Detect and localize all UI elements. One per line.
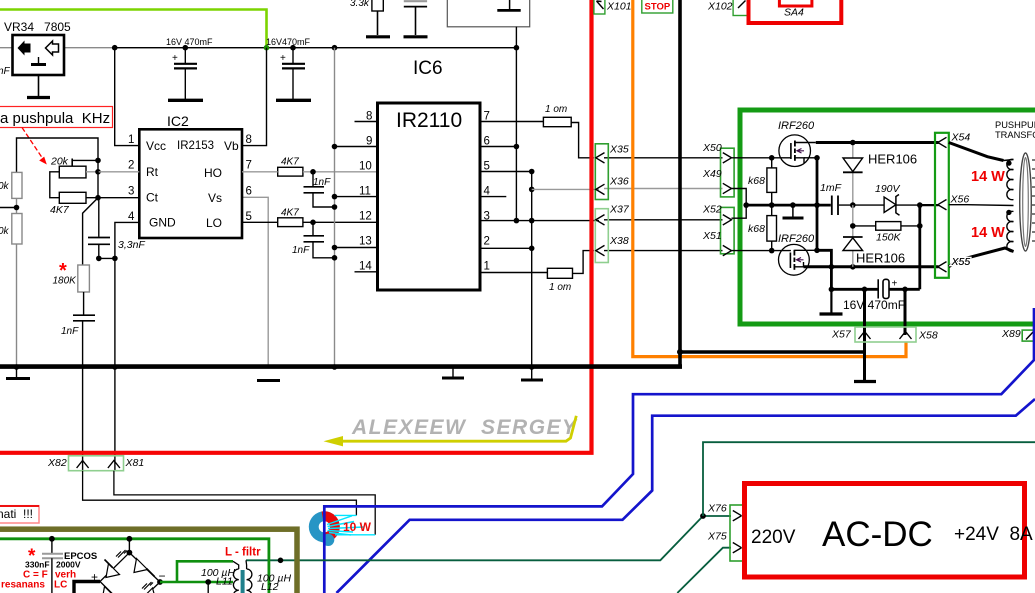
svg-text:6: 6 — [246, 186, 252, 198]
svg-text:+: + — [892, 279, 898, 290]
svg-text:4K7: 4K7 — [50, 204, 70, 216]
svg-text:X55: X55 — [951, 256, 971, 268]
svg-text:1nF: 1nF — [61, 326, 79, 337]
label box: a pushpula KHz — [0, 107, 113, 128]
connector X54/X56/X55 box — [935, 133, 949, 278]
node: rail on bus — [332, 364, 338, 370]
wire: bright green net top-left — [0, 10, 267, 48]
svg-text:resanans: resanans — [1, 580, 45, 591]
wire: X56 to center tap — [949, 204, 1014, 207]
svg-text:330nF: 330nF — [25, 560, 50, 570]
label X51 gate row wire — [732, 250, 791, 252]
svg-text:5: 5 — [484, 161, 490, 173]
connector arrow X36 — [596, 184, 605, 194]
wire: X82 to toroid — [83, 471, 357, 516]
svg-text:+: + — [172, 53, 178, 64]
inductor core bar — [241, 570, 245, 593]
wire: minus green to L11 — [160, 581, 233, 584]
node: teal dot in box — [278, 558, 284, 564]
label box STOP — [642, 0, 673, 13]
svg-text:8: 8 — [366, 111, 372, 123]
resistor 3.3k top — [350, 0, 390, 37]
transistor Q IRF260 #2 — [778, 233, 817, 275]
node: divider on bus — [14, 364, 20, 370]
zener diode 190V — [875, 183, 901, 215]
wire: X58 drop — [904, 289, 907, 335]
svg-text:X37: X37 — [609, 204, 630, 216]
svg-text:190V: 190V — [875, 183, 901, 195]
node: junction IC6 right — [514, 45, 520, 51]
node: rail pin11 — [332, 194, 338, 200]
wire: blue net A — [324, 308, 1034, 593]
svg-text:STOP: STOP — [645, 2, 671, 13]
ground below bus left — [6, 369, 30, 379]
wire: thick branch to X57 ground — [680, 350, 865, 354]
wire: black thick vertical x=680 — [678, 0, 682, 369]
svg-text:Rt: Rt — [146, 165, 159, 179]
wire: orange net — [633, 0, 906, 357]
svg-text:14 W: 14 W — [971, 225, 1005, 241]
svg-text:X38: X38 — [609, 235, 629, 247]
wire: source2 X55 row thick — [804, 265, 939, 268]
node: x516 pin6 — [514, 144, 520, 150]
svg-text:X51: X51 — [702, 230, 722, 242]
node: 150K left — [850, 223, 856, 229]
node: zener right — [917, 202, 923, 208]
node: gate1/k68 — [769, 155, 775, 161]
label box nati !!! — [0, 506, 39, 523]
switch box SA4 — [749, 0, 842, 23]
pin numbers IR2110 right — [484, 111, 491, 273]
node: Ct junction — [95, 195, 101, 201]
node: junction IC6 left — [332, 45, 338, 51]
node: GND on bus — [112, 364, 118, 370]
resistor 4K7 (Ct) — [50, 192, 86, 216]
module AC-DC box — [745, 484, 1034, 578]
resistor 4K7 HO coupling — [242, 157, 378, 177]
resistor 4K7 LO coupling — [242, 208, 378, 227]
capacitor 16V 470mF output — [831, 279, 919, 313]
node: mid source1 — [814, 202, 820, 208]
wire: bridge top feed — [128, 539, 130, 553]
wire: drain2 over to cap rail — [817, 250, 831, 289]
wire: pot left to 4K7 left — [50, 172, 60, 198]
pin stubs IR2110 left — [335, 122, 378, 272]
capacitor 1nF HO — [304, 172, 335, 207]
node: source1 — [814, 155, 820, 161]
connector arrow X52 — [723, 215, 732, 225]
connector X57/X58 box — [855, 327, 916, 342]
svg-text:X75: X75 — [707, 531, 727, 543]
svg-text:X49: X49 — [702, 168, 722, 180]
wire: blue net B — [337, 399, 1035, 593]
svg-text:X58: X58 — [918, 330, 938, 342]
svg-text:nati !!!: nati !!! — [0, 507, 33, 521]
wire: X36 row gray — [532, 188, 599, 190]
svg-text:16V 470mF: 16V 470mF — [843, 298, 905, 312]
svg-text:X35: X35 — [609, 144, 629, 156]
connector X76/X75 box — [730, 505, 743, 561]
svg-text:X89: X89 — [1001, 328, 1021, 340]
svg-text:X102: X102 — [707, 1, 733, 13]
capacitor 1nF LO — [292, 222, 334, 257]
wire: X49 to mid — [732, 189, 747, 219]
svg-text:3.3k: 3.3k — [350, 0, 370, 9]
node: mid gnd stub — [790, 202, 796, 208]
node: HO junction — [310, 169, 316, 175]
capacitor C 16V470mF #2 — [266, 37, 311, 100]
wire: X54 to winding thick — [949, 143, 1004, 161]
svg-text:0k: 0k — [0, 226, 10, 237]
node: X55 row x831 — [829, 264, 835, 270]
node: rail 1nF HO — [332, 204, 338, 210]
wire: X50 gate row — [732, 157, 791, 159]
svg-text:AC-DC: AC-DC — [822, 515, 933, 554]
potentiometer 20k — [50, 156, 98, 178]
capacitor 1mF coupling — [820, 182, 842, 215]
wire: Ct row — [86, 197, 139, 199]
IC2 (IR2153) — [128, 113, 252, 238]
red pointer arrow to 20k — [22, 128, 47, 165]
node: x531 bus — [529, 364, 535, 370]
wire: IC2 Vs down to GND bus (gray) — [242, 197, 268, 366]
wire: IC2 Vb to rail — [242, 48, 267, 146]
wire: X57 ground drop — [863, 342, 866, 380]
diode HER106 #1 — [843, 143, 917, 206]
svg-text:X36: X36 — [609, 176, 629, 188]
svg-text:220V: 220V — [751, 527, 796, 548]
inductor L12 — [246, 560, 291, 593]
wire: ground bus — [0, 364, 682, 369]
wire: X81 feed down — [114, 367, 116, 471]
connector arrow X37 — [596, 215, 605, 225]
svg-text:9: 9 — [366, 136, 372, 148]
wire: green L11 top loop — [177, 561, 233, 582]
svg-text:10: 10 — [359, 161, 372, 173]
svg-text:X56: X56 — [950, 194, 970, 206]
node: 150K right — [917, 223, 923, 229]
resistor 10k upper (gray) — [0, 172, 22, 198]
wire: X75 stub into box — [742, 547, 751, 549]
svg-text:11: 11 — [359, 186, 371, 198]
wire: green DC rail — [0, 539, 269, 593]
node: 3,3nF bottom — [96, 256, 102, 262]
svg-text:IR2110: IR2110 — [396, 109, 462, 132]
node: junction cap1 — [183, 45, 189, 51]
svg-text:1 om: 1 om — [549, 282, 571, 293]
svg-text:14: 14 — [359, 261, 372, 273]
svg-text:X52: X52 — [702, 204, 722, 216]
node: gate2/k68 — [769, 248, 775, 254]
connector X101 — [594, 0, 632, 14]
svg-text:2: 2 — [484, 236, 490, 248]
svg-text:150K: 150K — [876, 232, 902, 244]
connector X102 — [707, 0, 749, 16]
svg-text:PUSHPULL: PUSHPULL — [995, 120, 1035, 130]
node: junction green/Vb — [264, 45, 270, 51]
node: X55 row HER line — [850, 264, 856, 270]
svg-text:IRF260: IRF260 — [778, 120, 815, 132]
connector arrow X75 — [733, 543, 742, 553]
IC U IR2110 — [378, 103, 481, 290]
wire: plus output thick — [74, 582, 100, 593]
svg-text:Vcc: Vcc — [146, 139, 166, 153]
node: junction cap2 — [290, 45, 296, 51]
connector X82/X81 box — [69, 456, 124, 471]
capacitor C 16V 470mF #1 — [166, 37, 213, 100]
wire: X35 row to X50 — [604, 157, 723, 159]
wire: thick vertical x=919.8 — [918, 205, 921, 289]
svg-text:1: 1 — [128, 134, 134, 146]
svg-text:IRF260: IRF260 — [778, 233, 815, 245]
wire: Rt row (gray) — [98, 171, 139, 173]
wire: main +12V rail y=48 — [0, 47, 516, 49]
connector arrow X38 — [596, 245, 605, 255]
node: pot top tap — [95, 158, 101, 164]
svg-text:1 om: 1 om — [545, 104, 567, 115]
ground below bus at x=268 — [257, 379, 280, 382]
yellow arrow — [324, 416, 577, 447]
node: pot Rt — [95, 169, 101, 175]
svg-text:1: 1 — [484, 261, 490, 273]
connector X52/X51 box — [721, 207, 735, 253]
connector arrow X51 — [723, 245, 732, 255]
svg-text:Vs: Vs — [208, 191, 222, 205]
connector X50/X49 box — [721, 148, 735, 197]
node: rail 1nF LO — [332, 255, 338, 261]
connector arrow X76 — [733, 511, 742, 521]
node: LO junction — [310, 220, 316, 226]
diode bridge — [100, 550, 160, 593]
svg-text:L11: L11 — [216, 576, 233, 588]
transistor Q IRF260 #1 — [778, 120, 817, 167]
svg-text:VR34 7805: VR34 7805 — [4, 20, 71, 34]
connector arrow X50 — [723, 153, 732, 163]
connector arrow X82 — [77, 461, 89, 469]
resistor k68 #2 — [748, 216, 777, 251]
wire: winding2 to X55 thick — [949, 248, 1014, 267]
svg-text:LO: LO — [206, 216, 222, 230]
wire: mid row thick (center tap) — [746, 204, 831, 207]
wire: drain1 to X54 row thick — [816, 141, 939, 144]
svg-text:k68: k68 — [748, 223, 765, 235]
pin numbers IR2110 left — [359, 111, 372, 273]
wire: X36 row to X49 — [604, 188, 723, 190]
svg-text:4K7: 4K7 — [281, 157, 299, 168]
svg-text:ALEXEEW SERGEY: ALEXEEW SERGEY — [351, 416, 578, 439]
svg-text:2: 2 — [128, 160, 134, 172]
connector X89 box — [1022, 330, 1035, 341]
ground below VR34 — [27, 75, 50, 98]
power stage green box — [740, 110, 1035, 324]
svg-text:2000V: 2000V — [56, 560, 81, 570]
svg-text:6: 6 — [484, 136, 490, 148]
node: GND wire — [112, 256, 118, 262]
node: bridge top — [126, 550, 132, 556]
node: branch at 680,352 — [677, 349, 683, 355]
pin stubs IR2110 right — [480, 122, 599, 273]
node: x531 pin2 — [529, 246, 535, 252]
wire: source1 down thick — [816, 158, 819, 251]
wire: GND pin4 down — [115, 222, 139, 366]
svg-text:+: + — [280, 53, 286, 64]
svg-text:14 W: 14 W — [971, 169, 1005, 185]
wire: X57 drop — [863, 289, 866, 342]
ground X57 — [854, 380, 876, 383]
wire: X81 to toroid — [114, 471, 375, 535]
node: junction VR34 out — [112, 45, 118, 51]
wire: top pi-wire from divider to pot node — [17, 138, 99, 172]
svg-text:IC2: IC2 — [167, 113, 189, 129]
node: x531 pin5 — [529, 169, 535, 175]
svg-text:a pushpula KHz: a pushpula KHz — [0, 110, 110, 127]
connector arrow X57 — [859, 332, 871, 340]
transformer winding top — [1004, 159, 1014, 199]
module box top (cut) — [447, 0, 529, 27]
resistor k68 #1 — [748, 158, 777, 216]
wire: Ct diagonal to 180K — [83, 198, 98, 265]
svg-text:X50: X50 — [702, 142, 722, 154]
connector arrow X35 — [596, 153, 605, 163]
node: EPCOS tap — [49, 536, 55, 542]
node: drain2 junction — [814, 248, 820, 254]
wire: VR34 to IC2 Vcc — [115, 48, 140, 146]
regulator VR34 7805 — [4, 20, 71, 75]
connector arrow X54 — [938, 137, 947, 147]
wire: vertical rail x=334.5 (gray) — [334, 48, 336, 367]
svg-text:12: 12 — [359, 211, 372, 223]
node: cap rail X58 — [902, 287, 908, 293]
wire: X76 stub into box — [742, 515, 751, 517]
svg-text:IR2153: IR2153 — [177, 140, 214, 152]
svg-text:1mF: 1mF — [820, 182, 842, 194]
wire: 3,3nF to GND wire — [99, 257, 115, 259]
capacitor 1nF below 180K — [61, 292, 95, 471]
svg-text:3,3nF: 3,3nF — [118, 239, 145, 251]
wire: vertical x=531.7 — [531, 172, 533, 367]
ground mid stub — [783, 205, 804, 218]
svg-text:TRANSFORMER: TRANSFORMER — [995, 130, 1035, 140]
node: x531 pin3 — [529, 218, 535, 224]
wire: X38 row to X51 — [604, 250, 723, 252]
node: teal X76 junction — [700, 513, 706, 519]
svg-text:HER106: HER106 — [856, 251, 905, 266]
node: k68 mid — [769, 202, 775, 208]
diode HER106 #2 — [843, 205, 905, 267]
svg-text:7: 7 — [246, 160, 252, 172]
transformer core — [1020, 153, 1035, 251]
svg-text:4: 4 — [484, 186, 491, 198]
svg-text:X81: X81 — [125, 457, 145, 469]
svg-text:k68: k68 — [748, 175, 765, 187]
capacitor EPCOS 330nF 2000V — [1, 539, 97, 593]
wire: IC6 right vertical — [515, 27, 517, 221]
connector X35/X36 box — [595, 144, 608, 200]
node: bridge right — [157, 579, 163, 585]
wire: teal branch up-right — [703, 442, 1035, 516]
node: L11 bottom tap — [205, 579, 211, 585]
node: rail pin13 — [332, 245, 338, 251]
node: cap rail X57 — [862, 287, 868, 293]
node: x516 pin3 — [514, 218, 520, 224]
wire: X56 stub — [920, 204, 939, 206]
svg-text:1nF: 1nF — [292, 245, 310, 256]
node: winding1 dot — [1006, 160, 1011, 165]
wire: red net vertical+horizontal — [0, 0, 592, 453]
svg-text:5: 5 — [246, 211, 252, 223]
svg-text:X101: X101 — [606, 1, 632, 13]
svg-text:HO: HO — [204, 166, 222, 180]
resistor 1 om bottom — [547, 251, 593, 293]
node: rail pin9 — [332, 144, 338, 150]
connector arrow X49 — [723, 183, 732, 193]
inductor L11 — [201, 561, 239, 593]
resistor 180K — [53, 265, 90, 292]
svg-text:L - filtr: L - filtr — [225, 547, 261, 559]
rectifier module olive box — [0, 529, 297, 593]
wire: X37 row to X52 — [604, 219, 723, 221]
svg-text:SA4: SA4 — [784, 7, 804, 19]
ground below cap rail — [820, 289, 843, 314]
svg-text:4: 4 — [128, 211, 135, 223]
svg-text:180K: 180K — [53, 276, 78, 287]
capacitor 3,3nF at Ct — [88, 198, 145, 259]
node: HER1 mid — [850, 202, 856, 208]
svg-text:GND: GND — [149, 216, 176, 230]
node: x531 X36 — [529, 187, 535, 193]
wire: teal X75 branch — [677, 548, 731, 593]
node: divider tap — [0, 198, 19, 213]
ground below bus x=531 — [521, 369, 543, 380]
resistor 150K — [853, 222, 920, 244]
svg-text:10 W: 10 W — [343, 520, 372, 534]
svg-text:16V470mF: 16V470mF — [266, 37, 311, 47]
toroid transformer 10W — [309, 511, 375, 546]
capacitor top (to ground) — [404, 1, 428, 37]
svg-text:3: 3 — [128, 186, 134, 198]
svg-text:16V 470mF: 16V 470mF — [166, 37, 213, 47]
node: mid left — [743, 202, 749, 208]
svg-text:Ct: Ct — [146, 191, 159, 205]
node: winding2 dot — [1006, 210, 1011, 215]
wire: teal net L12 to X76 — [246, 516, 731, 560]
resistor 1 om top — [543, 104, 593, 158]
svg-text:4K7: 4K7 — [281, 208, 299, 219]
svg-text:+24V 8A: +24V 8A — [954, 524, 1033, 545]
node: HER1 top — [850, 140, 856, 146]
svg-text:IC6: IC6 — [413, 58, 443, 79]
wire: pot node vertical — [97, 160, 99, 197]
svg-text:X82: X82 — [47, 457, 67, 469]
resistor 10k lower (gray) — [0, 214, 22, 367]
svg-text:0k: 0k — [0, 181, 10, 192]
svg-text:X54: X54 — [951, 132, 971, 144]
wire: drop from tap — [207, 582, 209, 593]
connector arrow X81 — [108, 461, 120, 469]
svg-text:L12: L12 — [261, 581, 279, 593]
svg-text:13: 13 — [359, 236, 372, 248]
node: bridge tap — [126, 536, 132, 542]
svg-text:8: 8 — [246, 134, 252, 146]
svg-text:HER106: HER106 — [868, 152, 917, 167]
transformer winding bottom — [1007, 211, 1014, 251]
connector arrow X56 — [938, 200, 947, 210]
ground below bus x=453 — [442, 368, 464, 378]
svg-text:Vb: Vb — [224, 139, 239, 153]
svg-text:7: 7 — [484, 111, 490, 123]
connector X37/X38 box — [595, 209, 608, 263]
svg-text:X76: X76 — [707, 503, 727, 515]
